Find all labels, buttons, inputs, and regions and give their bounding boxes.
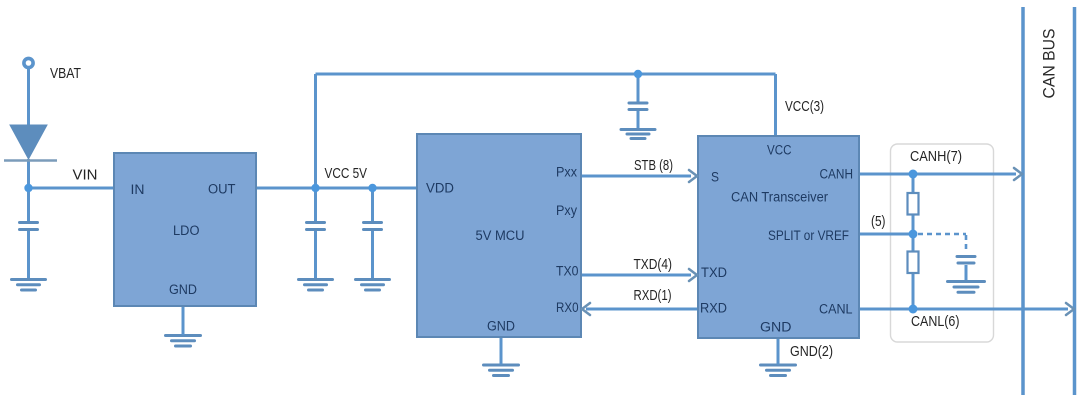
svg-text:CANH: CANH: [820, 167, 854, 182]
svg-text:CAN BUS: CAN BUS: [1040, 29, 1059, 99]
svg-text:GND(2): GND(2): [790, 343, 833, 360]
svg-text:TXD(4): TXD(4): [634, 256, 673, 273]
svg-text:VCC 5V: VCC 5V: [325, 165, 368, 182]
svg-text:RXD(1): RXD(1): [634, 287, 672, 304]
svg-text:CANL: CANL: [819, 302, 853, 317]
svg-text:S: S: [711, 170, 719, 185]
svg-text:OUT: OUT: [208, 182, 236, 197]
svg-text:TX0: TX0: [556, 264, 579, 279]
svg-text:SPLIT or VREF: SPLIT or VREF: [768, 228, 849, 243]
svg-text:VCC(3): VCC(3): [785, 98, 824, 115]
svg-text:Pxx: Pxx: [556, 165, 577, 180]
svg-text:CANL(6): CANL(6): [911, 313, 960, 330]
svg-text:Pxy: Pxy: [556, 203, 577, 218]
svg-text:(5): (5): [871, 213, 886, 230]
svg-text:CAN Transceiver: CAN Transceiver: [731, 190, 828, 205]
svg-text:GND: GND: [487, 319, 515, 334]
svg-text:STB (8): STB (8): [634, 157, 673, 174]
svg-text:LDO: LDO: [173, 223, 200, 238]
svg-text:RXD: RXD: [700, 301, 727, 316]
svg-text:VBAT: VBAT: [50, 65, 81, 82]
svg-text:RX0: RX0: [556, 300, 579, 315]
svg-text:VCC: VCC: [767, 143, 792, 158]
svg-text:GND: GND: [169, 282, 197, 297]
svg-text:IN: IN: [131, 182, 145, 197]
svg-text:TXD: TXD: [701, 265, 727, 280]
svg-text:5V MCU: 5V MCU: [476, 228, 525, 243]
svg-text:GND: GND: [760, 320, 792, 335]
svg-text:VDD: VDD: [426, 181, 454, 196]
svg-text:CANH(7): CANH(7): [910, 148, 962, 165]
svg-text:VIN: VIN: [73, 167, 98, 184]
